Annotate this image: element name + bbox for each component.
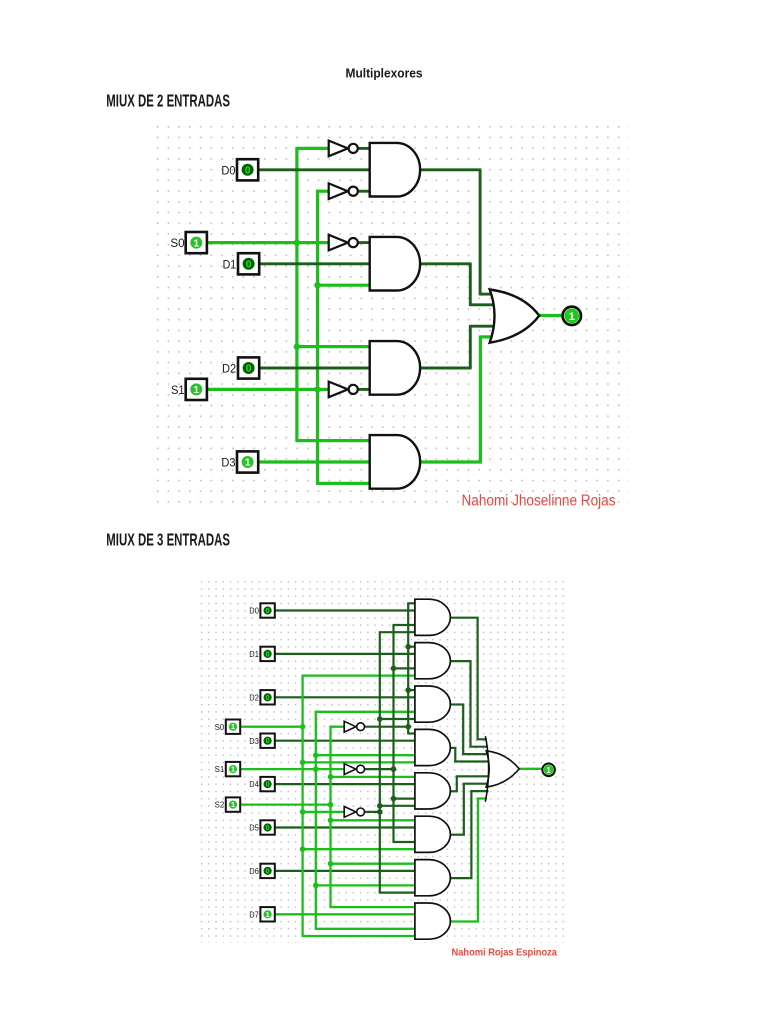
wire B4 output vertical xyxy=(454,748,456,762)
svg-text:0: 0 xyxy=(246,260,252,271)
svg-text:1: 1 xyxy=(569,311,575,323)
svg-text:0: 0 xyxy=(266,823,270,832)
wire U3 output to A2 in1 xyxy=(358,241,372,244)
svg-text:S2: S2 xyxy=(215,800,225,810)
svg-text:1: 1 xyxy=(245,458,251,469)
wire B2 output xyxy=(449,660,471,662)
wire S2' to B3 in1 xyxy=(408,689,417,691)
input pin D5 xyxy=(260,820,274,834)
wire S1 vertical bus xyxy=(315,712,317,929)
wire S2 to B7 in1 xyxy=(331,863,417,865)
wire S2 pin to junction xyxy=(240,803,332,805)
svg-text:Nahomi Jhoselinne Rojas: Nahomi Jhoselinne Rojas xyxy=(462,493,616,510)
wire S1 pin to junction xyxy=(207,388,319,391)
wire A1 output vertical xyxy=(479,170,482,296)
wire A2 output vertical xyxy=(469,264,472,306)
node junction S0/A3 xyxy=(294,343,300,349)
svg-text:S1: S1 xyxy=(215,764,225,774)
wire S1' to B5 in4 xyxy=(394,797,417,799)
OR gate O2 xyxy=(485,736,519,802)
node junction S0 pin xyxy=(300,724,306,730)
wire B5 output xyxy=(449,790,458,792)
wire S0 to B2 in5 xyxy=(302,674,417,676)
AND gate B5 xyxy=(415,773,451,809)
svg-text:1: 1 xyxy=(266,910,270,919)
wire S0' to B5 in5 xyxy=(380,805,417,807)
wire S1 vertical bus xyxy=(316,191,319,483)
wire S1' to B1 in4 xyxy=(393,624,417,626)
AND gate B4 xyxy=(415,729,451,765)
wire S0' to B7 in5 xyxy=(379,891,417,893)
wire B5 output vertical xyxy=(456,776,458,791)
svg-text:Nahomi Rojas Espinoza: Nahomi Rojas Espinoza xyxy=(452,948,558,959)
output LED Q1 xyxy=(563,307,581,325)
AND gate B7 xyxy=(415,860,451,896)
node junction S2'/B3 xyxy=(405,687,411,693)
wire B1 output xyxy=(449,617,478,619)
wire S0 to inverter U1 xyxy=(295,147,329,150)
input pin D1 xyxy=(260,647,274,661)
node junction S1/B4 xyxy=(313,752,319,758)
svg-text:0: 0 xyxy=(266,649,270,658)
wire B4 to OR input 4 xyxy=(454,760,489,762)
svg-text:S0: S0 xyxy=(170,236,184,250)
wire B8 output xyxy=(449,920,479,922)
node junction S1'/B5 xyxy=(391,796,397,802)
wire B6 output xyxy=(449,834,465,836)
wire D0 to AND A1 xyxy=(259,168,372,171)
wire S1 to AND A2 in3 xyxy=(318,284,372,287)
node junction S2/B6 xyxy=(328,818,334,824)
wire S1 to B7 in4 xyxy=(316,884,417,886)
AND gate A1 xyxy=(370,143,420,197)
wire S1 to B8 in4 xyxy=(315,928,417,930)
wire S2' vertical bus xyxy=(407,603,409,733)
input pin D6 xyxy=(260,864,274,878)
input pin D3 xyxy=(237,451,258,472)
svg-text:D2: D2 xyxy=(249,692,259,702)
wire S2' to B4 in1 xyxy=(407,732,417,734)
wire B6 to OR input 6 xyxy=(463,783,490,785)
wire D3 to AND B4 xyxy=(275,740,417,742)
wire D4 to AND B5 xyxy=(275,783,417,785)
wire U2 output to A1 in3 xyxy=(358,190,372,193)
wire S0 vertical bus xyxy=(295,148,298,440)
svg-text:1: 1 xyxy=(231,800,235,809)
wire S0 to B4 in5 xyxy=(303,761,417,763)
wire S2 vertical bus xyxy=(329,727,331,907)
wire A4 output vertical xyxy=(479,336,482,463)
node junction S2'/B2 xyxy=(405,644,411,650)
svg-text:0: 0 xyxy=(266,606,270,615)
wire S2 to B6 in1 xyxy=(331,819,417,821)
svg-text:0: 0 xyxy=(246,364,252,375)
svg-text:D3: D3 xyxy=(221,456,235,470)
wire S0 pin to junction xyxy=(207,241,298,244)
AND gate B6 xyxy=(415,816,451,852)
wire D0 to AND B1 xyxy=(275,609,417,611)
wire B2 to OR input 2 xyxy=(469,746,488,748)
svg-text:0: 0 xyxy=(245,166,251,177)
wire S0 junction to inverter U3 xyxy=(297,241,330,244)
node junction S0' source xyxy=(377,809,383,815)
wire OR output to LED xyxy=(519,768,542,770)
svg-text:D5: D5 xyxy=(249,823,259,833)
wire S1 to inverter U2 xyxy=(316,190,330,193)
wire S0 pin to junction xyxy=(240,726,304,728)
AND gate A3 xyxy=(370,341,420,395)
wire S0' to B1 in5 xyxy=(379,631,417,633)
input pin D0 xyxy=(260,603,274,617)
wire S2 to inverter U5 xyxy=(329,726,345,728)
circuit 1 grid canvas xyxy=(152,117,629,509)
svg-text:S0: S0 xyxy=(215,722,225,732)
inverter U5 (NOT S2) xyxy=(344,721,364,732)
wire A3 output vertical xyxy=(469,325,472,368)
node junction S2' source xyxy=(405,724,411,730)
wire S0 to B8 in5 xyxy=(302,935,417,937)
node junction S2 pin xyxy=(328,802,334,808)
wire S2' to B1 in1 xyxy=(407,602,417,604)
wire B1 output vertical xyxy=(477,618,479,740)
input pin S0 xyxy=(186,232,207,253)
wire B5 to OR input 5 xyxy=(456,775,490,777)
output LED Q2 xyxy=(542,764,555,777)
wire D2 to AND B3 xyxy=(275,696,417,698)
wire S1 pin to junction xyxy=(240,768,316,770)
wire S1 junction to inverter U6 xyxy=(316,768,345,770)
input pin D1 xyxy=(238,253,259,274)
svg-text:MIUX DE 3 ENTRADAS: MIUX DE 3 ENTRADAS xyxy=(106,530,230,550)
svg-text:D1: D1 xyxy=(249,649,259,659)
wire S1' vertical bus xyxy=(392,625,394,842)
wire S2 to B8 in1 xyxy=(329,906,417,908)
wire S0 vertical bus xyxy=(301,676,303,936)
wire B8 to OR input 8 xyxy=(477,797,487,799)
wire B4 output xyxy=(449,747,456,749)
inverter U7 (NOT S0) xyxy=(344,807,364,818)
wire D1 to AND A2 xyxy=(259,262,372,265)
wire B6 output vertical xyxy=(463,784,465,835)
svg-text:1: 1 xyxy=(231,722,235,731)
svg-text:1: 1 xyxy=(546,766,551,775)
wire B3 output vertical xyxy=(462,705,464,755)
wire A4 to OR in5 xyxy=(480,335,492,338)
svg-text:1: 1 xyxy=(194,385,200,396)
node junction S1/B7 xyxy=(313,883,319,889)
wire U7 output S0' xyxy=(365,811,381,813)
input pin D0 xyxy=(237,159,258,180)
node junction S1 pin xyxy=(313,766,319,772)
circuit 2 grid canvas xyxy=(199,577,564,943)
wire D5 to AND B6 xyxy=(275,826,417,828)
svg-text:1: 1 xyxy=(231,765,235,774)
node junction S2/B5 xyxy=(328,774,334,780)
svg-text:1: 1 xyxy=(194,238,200,249)
svg-text:Multiplexores: Multiplexores xyxy=(346,66,423,81)
node junction S1/U4 xyxy=(314,386,320,392)
wire S2 to B5 in1 xyxy=(331,776,417,778)
wire S1 to B3 in4 xyxy=(315,711,417,713)
wire S0 to AND A4 in1 xyxy=(295,439,371,442)
svg-text:S1: S1 xyxy=(171,383,185,397)
OR gate O1 xyxy=(490,290,540,343)
wire S0' to B3 in5 xyxy=(380,718,417,720)
wire D2 to AND A3 xyxy=(259,367,372,370)
node junction S0/B4 xyxy=(300,760,306,766)
wire S0 to B6 in5 xyxy=(303,848,417,850)
wire U4 output to A3 in3 xyxy=(358,388,372,391)
svg-text:D3: D3 xyxy=(249,736,259,746)
input pin S0 xyxy=(226,720,240,734)
wire U6 output S1' xyxy=(365,768,395,770)
input pin S1 xyxy=(226,762,240,776)
wire B3 output xyxy=(449,703,464,705)
wire D3 to AND A4 xyxy=(258,460,372,463)
AND gate B3 xyxy=(415,686,451,722)
wire S1 to B4 in4 xyxy=(316,754,417,756)
svg-text:0: 0 xyxy=(266,780,270,789)
svg-text:0: 0 xyxy=(266,693,270,702)
wire B3 to OR input 3 xyxy=(462,753,489,755)
wire S1 to AND A4 in3 xyxy=(316,482,372,485)
svg-text:0: 0 xyxy=(266,736,270,745)
node junction S1' source xyxy=(391,766,397,772)
wire B2 output vertical xyxy=(469,661,471,747)
node junction S0'/B3 xyxy=(377,716,383,722)
wire B7 to OR input 7 xyxy=(470,790,488,792)
node junction S1'/B2 xyxy=(391,666,397,672)
wire A1 output xyxy=(419,168,481,171)
svg-text:D0: D0 xyxy=(221,163,235,177)
wire A3 to OR in4 xyxy=(470,325,496,328)
wire OR output to LED xyxy=(539,314,563,317)
wire A2 to OR in2 xyxy=(470,303,496,306)
input pin D3 xyxy=(260,734,274,748)
AND gate A4 xyxy=(370,435,420,489)
svg-text:D7: D7 xyxy=(249,909,259,919)
wire A3 output xyxy=(419,367,471,370)
wire S0' vertical bus xyxy=(379,632,381,892)
wire U1 output to A1 in1 xyxy=(358,147,372,150)
node junction S0/U3 xyxy=(294,239,300,245)
node junction S1/A2 xyxy=(314,282,320,288)
wire B7 output vertical xyxy=(470,791,472,878)
wire D7 to AND B8 xyxy=(275,913,417,915)
svg-text:D6: D6 xyxy=(249,866,259,876)
input pin D4 xyxy=(260,777,274,791)
input pin D7 xyxy=(260,907,274,921)
svg-text:MIUX DE 2 ENTRADAS: MIUX DE 2 ENTRADAS xyxy=(106,91,230,111)
wire S1' to B2 in4 xyxy=(394,667,417,669)
inverter U4 (NOT S1) xyxy=(329,382,358,398)
AND gate A2 xyxy=(370,237,420,291)
svg-text:D0: D0 xyxy=(249,606,259,616)
wire S1' to B6 in4 xyxy=(393,841,417,843)
wire A4 output xyxy=(419,460,482,463)
wire S1 junction to inverter U4 xyxy=(318,388,330,391)
node junction S0/B6 xyxy=(300,846,306,852)
wire D6 to AND B7 xyxy=(275,870,417,872)
input pin S2 xyxy=(226,797,240,811)
wire S2' to B2 in1 xyxy=(408,646,417,648)
inverter U2 (NOT S1) xyxy=(329,183,358,199)
inverter U3 (NOT S0) xyxy=(329,235,358,251)
input pin D2 xyxy=(238,357,259,378)
inverter U6 (NOT S1) xyxy=(344,764,364,775)
wire U5 output S2' xyxy=(365,726,410,728)
AND gate B8 xyxy=(415,903,451,939)
wire B7 output xyxy=(449,877,472,879)
node junction S0/U7 xyxy=(300,809,306,815)
svg-text:D2: D2 xyxy=(222,362,236,376)
input pin S1 xyxy=(186,379,207,400)
AND gate B1 xyxy=(415,599,451,635)
wire B8 output vertical xyxy=(477,799,479,922)
wire A2 output xyxy=(419,262,471,265)
wire S0 to inverter U7 xyxy=(303,811,346,813)
wire S0 to AND A3 in1 xyxy=(297,345,372,348)
wire A1 to OR in1 xyxy=(480,293,493,296)
inverter U1 (NOT S0) xyxy=(329,141,358,157)
node junction S2/B7 xyxy=(328,861,334,867)
AND gate B2 xyxy=(415,643,451,679)
input pin D2 xyxy=(260,690,274,704)
svg-text:D4: D4 xyxy=(249,779,259,789)
svg-text:0: 0 xyxy=(266,866,270,875)
wire B1 to OR input 1 xyxy=(477,738,487,740)
wire D1 to AND B2 xyxy=(275,653,417,655)
node junction S0'/B5 xyxy=(377,803,383,809)
svg-text:D1: D1 xyxy=(223,257,237,271)
